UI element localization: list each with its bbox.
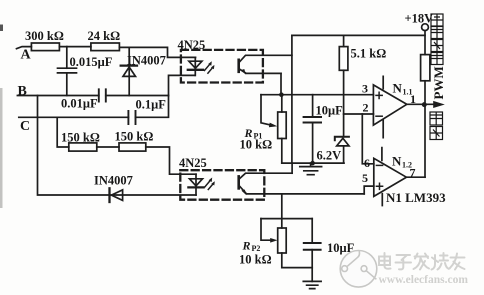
node A lead-in wire	[17, 47, 32, 49]
resistor 5.1k stem top	[343, 35, 345, 46]
zener bottom lead	[343, 146, 345, 163]
svg-text:6.2V: 6.2V	[317, 149, 342, 163]
potentiometer RP2 bottom lead	[282, 253, 312, 268]
diode IN4007 no.2 cathode bar	[108, 188, 110, 202]
diode IN4007 no.2 triangle	[111, 190, 122, 201]
node B wire right of cap	[106, 95, 169, 97]
svg-text:1.1: 1.1	[403, 88, 413, 97]
capacitor 10uF no.2 top stem	[311, 219, 313, 243]
wire opto1 emitter down to node	[280, 73, 282, 94]
opto1 LED cathode bar	[188, 69, 203, 71]
svg-text:3: 3	[362, 82, 368, 96]
CJK glyph hao	[431, 14, 443, 26]
opto2 phototransistor base bar	[237, 176, 240, 188]
optocoupler 4N25 no.2 dashed box	[180, 170, 264, 200]
capacitor 0.1uF plates	[128, 111, 135, 124]
opto1 transistor collector	[239, 55, 292, 63]
op-amp N1.2 minus sign	[376, 164, 382, 166]
svg-text:300 kΩ: 300 kΩ	[25, 29, 64, 43]
wire 300k to 24k	[59, 46, 91, 48]
svg-text:0.1μF: 0.1μF	[136, 98, 167, 112]
wire pin6 riser from reference	[362, 114, 374, 164]
potentiometer RP1 bottom lead	[281, 139, 283, 164]
svg-text:A: A	[21, 48, 32, 63]
svg-text:N1 LM393: N1 LM393	[386, 190, 446, 205]
svg-text:5: 5	[362, 171, 368, 185]
wire pin1 output to junction with arrow	[407, 103, 434, 105]
svg-text:B: B	[18, 84, 27, 99]
svg-text:IN4007: IN4007	[94, 174, 133, 188]
opto2 light arrow 2	[208, 183, 213, 189]
watermark site name CJK pseudoglyphs	[379, 253, 465, 270]
potentiometer RP1 wiper arm	[261, 95, 271, 125]
wire left vertical B to lower diode row	[38, 96, 197, 196]
wire pin5 input step	[364, 186, 374, 194]
terminal +18V circle	[422, 24, 429, 31]
wire +18V top rail	[292, 34, 425, 36]
label PWM drive signal (vertical, PWM latin + CJK pseudoglyphs)	[431, 14, 446, 100]
svg-text:2: 2	[363, 101, 369, 115]
svg-text:N: N	[393, 81, 403, 96]
svg-text:IN4007: IN4007	[127, 54, 166, 68]
opto2 transistor collector	[239, 173, 292, 179]
diode IN4007 no.1 triangle	[123, 67, 136, 76]
resistor 300k body	[31, 43, 59, 51]
svg-text:0.01μF: 0.01μF	[61, 97, 98, 111]
op-amp N1.2 triangle	[374, 158, 407, 196]
diode IN4007 no.1 lead through	[128, 47, 130, 95]
node junction dot ground rail	[310, 161, 315, 166]
capacitor 10uF no.1 plates	[304, 117, 321, 123]
zener 6.2V bar with left hook	[335, 137, 349, 141]
wire C drop to 150k resistors	[57, 117, 69, 147]
svg-text:N: N	[392, 154, 402, 169]
wire 5.1k to zener node	[343, 70, 345, 137]
resistor pull-up body	[421, 55, 430, 81]
op-amp N1.1 triangle	[373, 85, 406, 125]
arrowhead PWM output	[433, 101, 445, 108]
resistor 5.1k body	[339, 47, 348, 71]
diode IN4007 no.1 cathode bar	[121, 64, 137, 66]
opto2 LED cathode bar	[188, 186, 203, 188]
optocoupler 4N25 no.1 dashed box	[181, 50, 263, 83]
label feng-suo blocking (vertical CJK pseudoglyphs)	[430, 112, 443, 140]
wire pullup to output junction and down to pin7 riser	[424, 81, 426, 177]
op-amp N1.2 power stubs	[381, 148, 383, 206]
CJK glyph qu	[431, 53, 443, 65]
svg-text:C: C	[20, 119, 30, 134]
ground symbol no.2	[303, 281, 321, 288]
scan edge artifacts	[0, 88, 3, 208]
node junction dot output	[422, 102, 427, 107]
potentiometer RP2 wiper arm	[261, 219, 271, 241]
capacitor 0.015uF stem top	[66, 47, 68, 69]
resistor 150k no.2 body	[119, 143, 146, 151]
resistor 24k body	[91, 43, 120, 51]
resistor 150k no.1 body	[69, 143, 97, 151]
svg-text:PWM: PWM	[431, 66, 446, 99]
opto2 light arrow 1	[205, 180, 211, 187]
potentiometer RP2 body	[278, 228, 287, 253]
svg-text:150 kΩ: 150 kΩ	[61, 131, 100, 145]
node C wire	[19, 116, 129, 118]
CJK glyph dong	[431, 40, 443, 52]
opto1 LED triangle	[189, 61, 202, 68]
potentiometer RP2 top lead	[281, 194, 283, 228]
svg-text:0.015μF: 0.015μF	[70, 55, 113, 69]
op-amp N1.1 power stubs	[382, 76, 384, 137]
opto2 transistor emitter with arrow	[239, 185, 365, 194]
watermark logo circle	[340, 250, 377, 287]
node B wire left	[17, 95, 98, 97]
wire 150k to opto2 anode with step	[146, 147, 196, 174]
capacitor 0.015uF stem bottom	[66, 73, 68, 96]
capacitor 10uF no.2 bottom stem	[311, 250, 313, 282]
opto2 LED triangle	[190, 179, 203, 186]
op-amp N1.1 plus sign	[376, 92, 382, 98]
capacitor 0.01uF plates	[99, 89, 106, 101]
op-amp N1.1 minus sign	[376, 115, 382, 117]
opto1 light arrow 2	[208, 67, 213, 73]
CJK glyph feng	[430, 127, 443, 140]
svg-text:24 kΩ: 24 kΩ	[88, 29, 121, 43]
node junction dot opto1-emitter/RP1	[279, 92, 284, 97]
svg-text:10μF: 10μF	[316, 104, 344, 118]
svg-text:6: 6	[364, 156, 370, 170]
wire pin2 reference wire	[344, 113, 374, 115]
wire ground rail	[282, 162, 344, 164]
capacitor 10uF no.1 top stem	[312, 95, 314, 117]
svg-text:150 kΩ: 150 kΩ	[115, 130, 154, 144]
opto1 LED lead through	[194, 57, 196, 75]
wire pin7 output	[406, 176, 425, 178]
svg-text:5.1 kΩ: 5.1 kΩ	[351, 47, 387, 61]
capacitor 0.015uF plates	[58, 68, 77, 73]
svg-text:www.elecfans.com: www.elecfans.com	[379, 274, 469, 286]
CJK glyph suo	[430, 112, 443, 125]
potentiometer RP1 body	[278, 112, 287, 139]
zener 6.2V triangle apex up	[337, 138, 349, 146]
svg-text:4N25: 4N25	[179, 156, 207, 170]
wire vertical mid riser	[291, 35, 293, 163]
wire +18V to pullup resistor	[424, 31, 426, 55]
wire 24k to opto1 anode with step	[119, 47, 195, 57]
svg-text:4N25: 4N25	[178, 38, 206, 52]
wire B riser to opto1 cathode	[169, 75, 195, 95]
potentiometer RP1 top lead	[281, 95, 283, 112]
svg-text:+18V: +18V	[405, 12, 434, 26]
wire C cap to riser bus	[136, 96, 169, 118]
wire between 150k resistors	[97, 146, 119, 148]
svg-text:10 kΩ: 10 kΩ	[240, 138, 273, 152]
opto2 LED lead through	[195, 174, 197, 195]
potentiometer RP2 wiper bracket	[261, 218, 312, 220]
svg-text:1.2: 1.2	[402, 161, 412, 170]
op-amp N1.2 plus sign	[376, 183, 382, 189]
wire pin3 node wire	[261, 94, 373, 96]
opto1 phototransistor base bar	[237, 60, 240, 72]
wire opto2 collector riser to ground rail	[291, 163, 293, 173]
svg-text:R: R	[242, 239, 251, 253]
opto1 light arrow 1	[205, 63, 211, 70]
capacitor 10uF no.2 plates	[304, 243, 321, 250]
opto1 transistor emitter with arrow	[239, 69, 281, 74]
ground symbol no.1	[300, 163, 322, 175]
capacitor 10uF no.1 bottom stem	[312, 123, 314, 164]
CJK glyph xin	[431, 27, 443, 39]
svg-text:10 kΩ: 10 kΩ	[239, 253, 272, 267]
